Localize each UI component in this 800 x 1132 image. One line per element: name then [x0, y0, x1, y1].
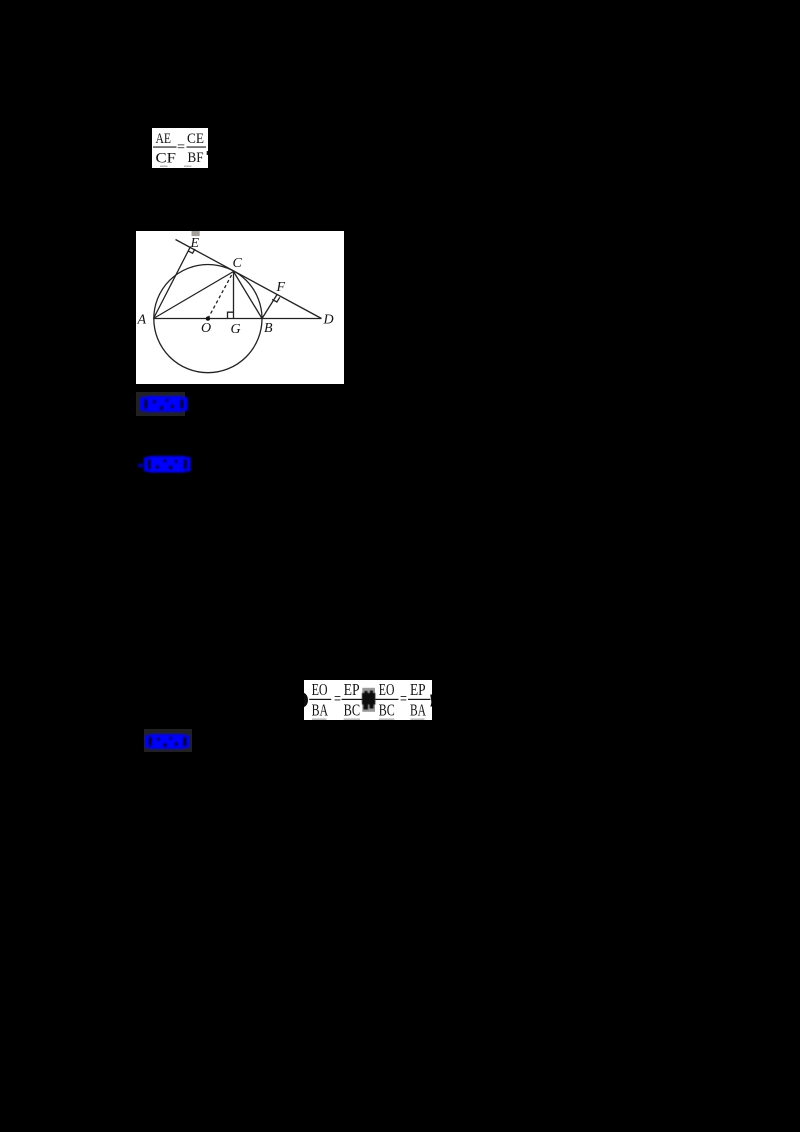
svg-text:BA: BA	[312, 701, 329, 720]
svg-text:=: =	[334, 689, 341, 708]
svg-text:E: E	[190, 236, 200, 251]
svg-text:BA: BA	[410, 701, 426, 720]
wire C-G vertical	[233, 272, 235, 319]
gray artifact rect above E	[192, 231, 200, 236]
svg-text:A: A	[137, 313, 147, 328]
svg-text:AE: AE	[156, 131, 172, 147]
svg-text:B: B	[264, 321, 273, 336]
svg-text:F: F	[276, 280, 286, 295]
wire E-C-F-D tangent line	[176, 240, 322, 319]
svg-text:O: O	[201, 321, 211, 336]
svg-text:=: =	[177, 140, 185, 156]
gray underline artifact under BF	[184, 166, 192, 168]
svg-text:CF: CF	[156, 151, 177, 167]
clipped comma at right edge	[430, 695, 432, 707]
svg-text:G: G	[231, 322, 241, 337]
wire A-C chord	[154, 272, 234, 319]
svg-text:=: =	[400, 689, 407, 708]
wire O-C dashed radius	[208, 272, 234, 319]
circle O	[154, 265, 262, 373]
geometry figure: circle O with secant and tangents	[136, 231, 344, 384]
gray box with dark character	[362, 688, 375, 712]
svg-text:BC: BC	[379, 701, 395, 720]
svg-text:C: C	[233, 256, 243, 271]
svg-text:EP: EP	[410, 680, 426, 699]
svg-text:EP: EP	[344, 680, 360, 699]
right angle mark at E	[188, 249, 195, 253]
fraction bar 1	[153, 147, 177, 148]
right angle mark at G	[228, 312, 234, 318]
wire C-B chord	[234, 272, 263, 319]
clipped glyph at left edge	[304, 693, 308, 707]
gray underline artifacts	[312, 718, 326, 720]
formula image 2: EO/BA = EP/BC (char) EO/BC = EP/BA	[304, 680, 432, 720]
svg-text:BF: BF	[188, 150, 204, 166]
right angle mark at F	[272, 297, 280, 302]
svg-text:EO: EO	[379, 680, 395, 699]
svg-text:EO: EO	[312, 680, 328, 699]
node O center dot	[206, 316, 210, 320]
clipped comma at right edge	[207, 151, 208, 155]
fraction bar 2	[187, 147, 207, 148]
wire A-B-D horizontal line	[154, 318, 322, 320]
gray underline artifact under CF	[160, 166, 168, 168]
svg-text:D: D	[323, 313, 334, 328]
wire B-F	[262, 295, 277, 319]
blue label 2	[144, 456, 191, 473]
svg-text:CE: CE	[187, 131, 204, 147]
blue label 3 with dark box	[144, 729, 191, 752]
blue label 1 with dark box	[136, 392, 185, 417]
svg-text:BC: BC	[344, 701, 361, 720]
small blue tick before label 2	[138, 464, 143, 468]
formula image 1: AE/CF = CE/BF	[152, 128, 208, 168]
wire A-E	[154, 247, 191, 319]
